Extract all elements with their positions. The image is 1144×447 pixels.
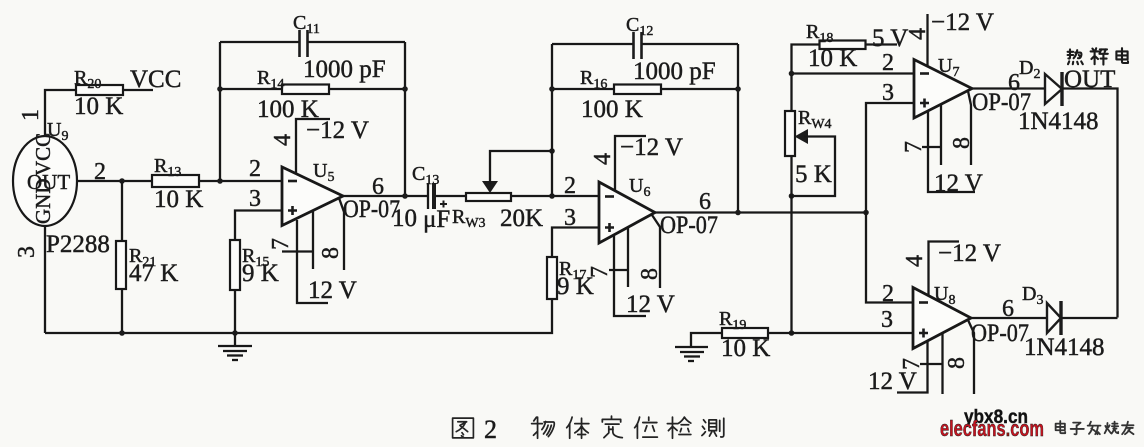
- junction dot feedback tap: [217, 178, 223, 184]
- U5 positive supply 12 V: [297, 220, 328, 303]
- svg-text:9 K: 9 K: [242, 260, 279, 287]
- svg-text:47 K: 47 K: [129, 260, 178, 287]
- wire R13 to U5 pin2: [199, 180, 282, 182]
- U7 pin8 stub: [968, 91, 971, 165]
- wire D3 to OUT corner: [1061, 317, 1118, 319]
- resistor R20: [76, 85, 123, 95]
- resistor R14: [220, 88, 282, 90]
- resistor R21: [116, 241, 126, 289]
- wire RW3 to U6 pin2: [511, 195, 599, 197]
- svg-text:1: 1: [18, 109, 44, 121]
- svg-text:12 V: 12 V: [626, 291, 675, 318]
- potentiometer RW3: [466, 193, 511, 201]
- svg-text:100 K: 100 K: [581, 96, 643, 123]
- feedback top wire with C12 gap: [552, 43, 633, 45]
- wire to U8 pin2: [866, 213, 913, 303]
- svg-text:OP-07: OP-07: [660, 212, 718, 239]
- ground symbol 2: [675, 333, 722, 361]
- junction U6 out to comparators: [863, 210, 869, 216]
- potentiometer RW4: [785, 111, 795, 156]
- wire R21 to ground bus: [121, 289, 123, 333]
- wire to U7 pin3: [866, 103, 914, 213]
- ground bus wire: [45, 299, 552, 333]
- svg-text:−12 V: −12 V: [931, 9, 994, 36]
- svg-text:VCC: VCC: [130, 66, 181, 93]
- caption 图 2: [453, 418, 474, 438]
- U6 positive supply 12 V: [614, 236, 646, 316]
- svg-text:2: 2: [94, 159, 106, 185]
- wire D2 to OUT: [1062, 89, 1118, 318]
- svg-text:6: 6: [1002, 296, 1014, 322]
- svg-text:6: 6: [699, 189, 711, 215]
- U5 pin4 supply wire: [296, 119, 330, 174]
- U8 positive supply 12 V: [897, 340, 928, 393]
- capacitor C12: [634, 32, 642, 59]
- svg-text:4: 4: [270, 134, 296, 146]
- svg-text:10 K: 10 K: [154, 186, 203, 213]
- svg-text:8: 8: [944, 357, 970, 369]
- feedback right vertical: [404, 42, 406, 196]
- watermark 电子发烧友: [1056, 421, 1066, 433]
- resistor R18: [792, 45, 820, 112]
- diode D3: [1047, 303, 1061, 333]
- svg-text:4: 4: [590, 153, 616, 165]
- wire R19 to U8 pin3: [768, 332, 913, 334]
- svg-text:10 K: 10 K: [808, 45, 857, 72]
- svg-text:3: 3: [14, 246, 40, 258]
- caption 物体定位检测: [532, 417, 555, 438]
- svg-text:2: 2: [564, 173, 576, 199]
- svg-text:8: 8: [637, 268, 663, 280]
- wire sensor OUT pin2: [77, 180, 152, 182]
- wire U6 pin3: [552, 228, 599, 258]
- svg-text:OUT: OUT: [1064, 66, 1115, 93]
- svg-text:elecfans.com: elecfans.com: [940, 416, 1044, 441]
- feedback left vertical: [219, 42, 221, 181]
- U8 pin8 stub: [968, 320, 974, 394]
- svg-text:8: 8: [318, 247, 344, 259]
- U5 pin8 stub: [339, 198, 344, 270]
- wire pin1 sensor top to R20: [45, 90, 76, 137]
- feedback top wire with C11 gap: [220, 41, 299, 43]
- svg-text:2: 2: [484, 415, 497, 444]
- svg-text:10: 10: [392, 205, 417, 232]
- svg-text:1N4148: 1N4148: [1018, 108, 1099, 135]
- resistor R15: [230, 240, 240, 290]
- svg-text:4: 4: [902, 255, 928, 267]
- node junction at R21 top: [119, 178, 125, 184]
- ground symbol: [218, 333, 252, 360]
- U5 pin7 stub: [312, 211, 314, 269]
- svg-text:1N4148: 1N4148: [1024, 334, 1105, 361]
- U7 positive supply 12 V: [928, 111, 975, 192]
- sensor U9 body: [13, 136, 77, 226]
- resistor R16: [552, 88, 614, 90]
- svg-text:20K: 20K: [500, 205, 543, 232]
- svg-text:P2288: P2288: [46, 231, 110, 258]
- svg-text:7: 7: [901, 141, 927, 153]
- wire sensor pin3 down: [44, 226, 46, 333]
- U7 pin4 supply wire: [926, 14, 928, 66]
- U7 output wire: [972, 87, 1045, 89]
- RW4 wiper arrow and loop: [795, 129, 809, 144]
- svg-text:2: 2: [882, 281, 894, 307]
- svg-text:5 K: 5 K: [795, 161, 832, 188]
- feedback left vertical stage2: [551, 44, 553, 196]
- svg-text:10 K: 10 K: [721, 335, 770, 362]
- U6 pin7 stub: [627, 227, 629, 287]
- svg-text:5 V: 5 V: [872, 25, 908, 52]
- U8 pin4 supply wire: [929, 242, 960, 296]
- RW4 body vertical to R19 node: [790, 156, 792, 333]
- svg-text:−12 V: −12 V: [938, 240, 1001, 267]
- svg-text:1000 pF: 1000 pF: [633, 58, 716, 85]
- svg-text:12 V: 12 V: [934, 170, 983, 197]
- svg-text:3: 3: [249, 186, 261, 212]
- svg-text:−12 V: −12 V: [620, 134, 683, 161]
- svg-text:3: 3: [882, 80, 894, 106]
- feedback right vertical stage2: [737, 44, 739, 212]
- svg-text:−12 V: −12 V: [306, 117, 369, 144]
- U6 output wire pin6: [655, 211, 866, 213]
- junction dot R15/bus: [232, 330, 238, 336]
- U6 pin4 supply wire: [615, 136, 646, 191]
- svg-text:1000 pF: 1000 pF: [303, 56, 386, 83]
- RW3 wiper arrow: [482, 181, 498, 193]
- capacitor C11: [300, 30, 308, 57]
- U8 output wire: [971, 317, 1047, 319]
- op-amp U7: [914, 60, 972, 119]
- svg-text:4: 4: [905, 28, 931, 40]
- svg-text:3: 3: [881, 307, 893, 333]
- resistor R13: [151, 180, 153, 182]
- U6 pin8 stub: [652, 215, 660, 288]
- capacitor C13: [427, 183, 429, 209]
- svg-text:8: 8: [949, 137, 975, 149]
- resistor R19: [722, 328, 768, 338]
- svg-text:2: 2: [882, 50, 894, 76]
- svg-text:2: 2: [249, 156, 261, 182]
- svg-text:3: 3: [564, 205, 576, 231]
- op-amp U8: [913, 288, 971, 349]
- wire U7 pin2: [792, 72, 915, 74]
- wire R20 to VCC: [123, 89, 153, 91]
- svg-text:6: 6: [372, 174, 384, 200]
- op-amp U6: [599, 182, 655, 243]
- wire down to R21: [121, 181, 123, 241]
- U8 pin7 stub: [941, 333, 943, 394]
- svg-text:12 V: 12 V: [868, 368, 917, 395]
- label 热释电 (pyroelectric): [1068, 49, 1083, 64]
- diode D2: [1045, 74, 1062, 104]
- svg-text:GND: GND: [31, 179, 55, 225]
- svg-text:10 K: 10 K: [74, 93, 123, 120]
- wire C13 to RW3: [436, 195, 466, 197]
- op-amp U5: [282, 167, 343, 226]
- svg-text:7: 7: [587, 266, 613, 278]
- resistor R17: [547, 257, 557, 299]
- svg-text:OP-07: OP-07: [971, 320, 1029, 347]
- wire U5 pin3: [235, 211, 282, 241]
- svg-text:12 V: 12 V: [308, 277, 357, 304]
- U7 pin7 stub: [940, 104, 942, 165]
- svg-text:μF: μF: [423, 206, 450, 233]
- U5 output wire pin6: [343, 195, 428, 197]
- svg-text:7: 7: [268, 238, 294, 250]
- junction dot R21/bus: [119, 330, 125, 336]
